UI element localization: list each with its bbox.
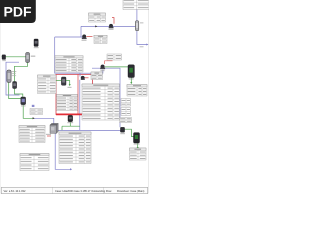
valve VLV-100 on feed line <box>2 55 6 60</box>
stream table sA <box>121 99 131 107</box>
stream table center <box>59 132 91 164</box>
label tag near C outlet <box>32 105 35 107</box>
wire: feed stream green top-left <box>2 56 26 58</box>
wire: green V3 bottoms arrow <box>137 143 139 148</box>
valve bottom right <box>120 127 124 132</box>
stream table mid <box>55 56 83 72</box>
stream table tiny <box>30 109 43 115</box>
wire: T1 bottom to C left <box>9 83 21 99</box>
stream table separator <box>19 126 45 143</box>
stream table left <box>38 75 57 94</box>
wire: B bottom to C <box>15 89 23 98</box>
composition table big <box>82 84 120 120</box>
arrowhead column product <box>146 44 148 46</box>
page left border <box>0 22 1 194</box>
label near column product <box>140 46 144 47</box>
heater E-100 top <box>34 39 38 46</box>
svg-text:Ver: a 8.1 10.1.032: Ver: a 8.1 10.1.032 <box>4 189 26 193</box>
wire: purple main top line into column <box>81 25 136 27</box>
wire: green CRV outlet manifold <box>69 122 71 127</box>
footer bar <box>1 187 148 193</box>
reactor CRV-100 <box>68 115 73 121</box>
wire: green P-102 outlet to V2 <box>105 66 128 68</box>
wire: green in red box <box>56 80 61 82</box>
stream table A top <box>89 13 106 22</box>
energy stream red separator <box>47 135 51 137</box>
pump in red box <box>81 76 85 80</box>
pump P-100 <box>109 24 113 28</box>
wire: separator bottoms down then right <box>55 133 71 169</box>
stream table r3 <box>130 148 147 160</box>
stream table sB <box>121 108 131 116</box>
vessel B <box>13 82 17 89</box>
svg-text:PDF: PDF <box>4 3 32 19</box>
arrowhead green V2 bottoms <box>130 82 132 84</box>
wire: purple along box top <box>55 73 80 76</box>
pump P-102 <box>101 65 105 69</box>
wire: purple riser P-101 to top line <box>80 26 82 37</box>
wire: purple into pump P-101 <box>55 36 83 38</box>
vessel V2 right <box>128 65 134 78</box>
workbook table top-right <box>123 0 149 10</box>
wire: purple to separator top <box>34 118 54 123</box>
wire: purple long left riser to P-102 <box>55 37 103 73</box>
wire: purple from table to column top <box>136 10 138 22</box>
wire: green valve outlet to V3 <box>125 129 134 136</box>
stream table in-box <box>57 95 78 111</box>
svg-text:Flowsheet: Case (Main): Flowsheet: Case (Main) <box>117 189 145 193</box>
column T-100 <box>135 21 138 31</box>
vessel V3 bottom right <box>134 133 140 143</box>
arrowhead green manifold junction <box>33 117 35 119</box>
page background <box>0 0 149 198</box>
wire: purple bottom distributor <box>58 129 121 131</box>
vessel in red box <box>61 77 66 85</box>
stream table box-top <box>91 72 103 80</box>
energy stream red P-102 <box>105 61 113 64</box>
vessel C <box>21 97 26 105</box>
arrowhead green V3 bottoms <box>137 147 139 149</box>
column T-101 tall <box>7 70 11 83</box>
energy stream red P-101 <box>87 36 93 38</box>
vessel V-100 <box>26 53 30 63</box>
svg-text:Case: Hita2000.Case 3.185.17 O: Case: Hita2000.Case 3.185.17 Outstanding… <box>55 189 112 193</box>
page right border <box>148 0 150 194</box>
stream table B <box>94 35 107 43</box>
sub-flowsheet red box <box>55 73 93 114</box>
wire: purple box pump down to distributor <box>79 80 81 131</box>
stream table bottom <box>20 154 49 171</box>
stream table sC <box>120 118 132 123</box>
arrowhead purple bottoms <box>70 168 72 170</box>
separator 3D box <box>50 123 58 133</box>
wire: V1 bottom to vessel B <box>15 63 28 82</box>
wire: column bottoms product <box>137 31 147 45</box>
energy stream red pump in box <box>85 77 89 79</box>
wire: purple mid-right through P-102 down to valve <box>92 68 120 127</box>
wire: green V2 bottoms arrow <box>130 78 132 83</box>
wire: purple recycle left loop <box>6 62 20 95</box>
pump P-101 <box>82 35 86 39</box>
stream table r2 <box>127 85 147 97</box>
arrowhead mid purple top line <box>95 25 97 27</box>
wire: C bottom going right <box>23 105 34 119</box>
PDF badge <box>0 0 36 23</box>
energy stream red P-100 <box>112 18 114 24</box>
stream table r1 <box>107 54 122 60</box>
